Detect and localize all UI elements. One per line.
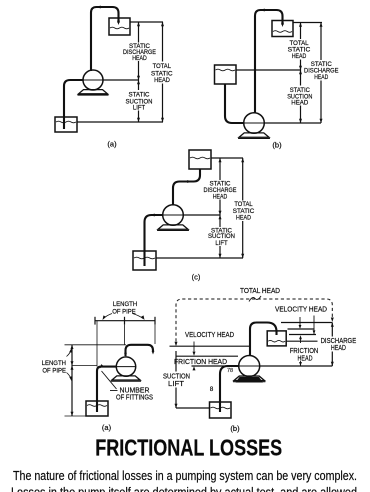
svg-text:LENGTH: LENGTH	[42, 360, 67, 367]
velocity head tick (left)	[193, 342, 196, 356]
caption (a) bottom	[102, 423, 112, 432]
svg-text:FRICTIONAL LOSSES: FRICTIONAL LOSSES	[95, 435, 282, 461]
suction tank (c)	[133, 251, 156, 270]
svg-text:LENGTH: LENGTH	[113, 301, 138, 308]
heading: FRICTIONAL LOSSES	[95, 435, 282, 461]
pump centreline extension (a)	[103, 79, 139, 81]
leader arrows from left label	[67, 348, 73, 382]
discharge pipe (bottom b)	[250, 323, 277, 356]
pump centreline (left segment)	[192, 365, 240, 367]
dimension: total static head (a)	[161, 22, 164, 122]
suction tank (bottom a)	[86, 401, 108, 416]
svg-text:(b): (b)	[230, 424, 240, 433]
extension lines from top dimension	[97, 321, 155, 367]
svg-text:(a): (a)	[102, 423, 112, 432]
energy line at suction (left velocity-head top)	[170, 345, 251, 347]
pump (bottom a)	[111, 357, 141, 381]
body text line 1	[13, 468, 357, 483]
svg-text:OF FITTINGS: OF FITTINGS	[116, 392, 153, 401]
suction pipe (bottom a)	[97, 367, 117, 412]
svg-text:HEAD: HEAD	[314, 74, 328, 81]
svg-text:HEAD: HEAD	[298, 353, 313, 362]
svg-text:(c): (c)	[192, 273, 201, 282]
label: TOTAL STATIC HEAD (c)	[233, 201, 255, 221]
svg-text:78: 78	[227, 368, 233, 374]
svg-text:(a): (a)	[107, 140, 117, 149]
suction tank (a)	[55, 117, 77, 132]
label: STATIC DISCHARGE HEAD (c)	[204, 181, 238, 201]
left reference line (top of vertical pipe run)	[65, 344, 127, 346]
svg-text:HEAD: HEAD	[291, 99, 308, 106]
caption (b) bottom	[230, 424, 240, 433]
caption (a)	[107, 140, 117, 149]
dimension: static discharge head / static suction lift (a)	[137, 22, 140, 122]
pump (c)	[157, 205, 189, 231]
discharge pipe (a)	[91, 6, 120, 72]
reference line: suction water level (c)	[156, 257, 243, 259]
suction tank (b)	[215, 65, 237, 84]
label: TOTAL STATIC HEAD (b)	[288, 40, 311, 60]
top diagram (a): pump with suction lift and elevated discharge tank	[55, 6, 173, 149]
body text line 2	[11, 484, 357, 492]
pump (bottom b)	[233, 356, 265, 383]
suction lift dimension line	[175, 351, 178, 408]
friction head tick (left)	[193, 366, 196, 370]
label: LENGTH OF PIPE (top)	[112, 301, 137, 315]
discharge tank (b)	[272, 21, 293, 37]
label: DISCHARGE HEAD	[321, 336, 357, 352]
label: STATIC SUCTION LIFT (a)	[126, 91, 153, 111]
stray figure mark 8	[210, 386, 214, 393]
svg-text:FRICTION HEAD: FRICTION HEAD	[174, 357, 227, 366]
dashed total-head boundary	[175, 299, 334, 346]
label: TOTAL STATIC HEAD (a)	[151, 63, 173, 84]
svg-text:OF PIPE: OF PIPE	[42, 368, 66, 375]
label: LENGTH OF PIPE (left)	[42, 360, 67, 375]
svg-text:HEAD: HEAD	[331, 343, 346, 352]
svg-text:TOTAL: TOTAL	[153, 63, 172, 70]
svg-text:TOTAL HEAD: TOTAL HEAD	[240, 286, 280, 295]
reference line: suction water level (a)	[77, 121, 163, 123]
discharge water level line (right)	[287, 340, 318, 342]
discharge pipe (c)	[173, 169, 200, 205]
reference line: discharge water level (b)	[293, 22, 322, 24]
discharge tank (a)	[109, 18, 130, 35]
suction pipe (a)	[64, 80, 84, 129]
suction tank (bottom b)	[210, 402, 232, 418]
dimension: static discharge head (b)	[320, 23, 323, 124]
svg-text:VELOCITY HEAD: VELOCITY HEAD	[275, 304, 327, 313]
label: STATIC DISCHARGE HEAD (b)	[304, 61, 339, 81]
discharge head dimension line	[331, 323, 334, 367]
svg-text:VELOCITY HEAD: VELOCITY HEAD	[185, 330, 234, 339]
reference line: discharge water level (c)	[211, 157, 243, 159]
reference line: discharge water level (a)	[130, 21, 163, 23]
top diagram (b): pump with static suction head	[215, 9, 340, 150]
discharge tank (bottom b)	[267, 331, 286, 346]
reference line: suction water level (b)	[236, 69, 301, 71]
caption (c)	[192, 273, 201, 282]
label: FRICTION HEAD (right)	[290, 346, 319, 362]
svg-text:HEAD: HEAD	[236, 214, 251, 221]
bottom reference line (tank bottom)	[65, 415, 87, 417]
svg-text:HEAD: HEAD	[132, 55, 147, 62]
svg-text:LIFT: LIFT	[215, 240, 227, 247]
velocity head lines/ticks (right)	[288, 316, 317, 335]
label: STATIC DISCHARGE HEAD (a)	[123, 43, 157, 62]
leader line: number of fittings	[98, 364, 117, 390]
energy line at discharge (velocity-head top, right)	[281, 322, 332, 324]
label: VELOCITY HEAD (right)	[275, 304, 327, 313]
pump centreline (right segment)	[260, 365, 333, 367]
svg-text:8: 8	[210, 386, 214, 393]
pump (a)	[78, 70, 109, 95]
brace under TOTAL HEAD	[249, 296, 261, 302]
label: TOTAL HEAD	[240, 286, 280, 295]
bottom diagram (b): total head with velocity and friction heads	[163, 286, 356, 433]
label: VELOCITY HEAD (left)	[185, 330, 234, 339]
left pump centreline extension	[72, 365, 97, 367]
dimension: total static head (c)	[241, 158, 244, 258]
label: SUCTION LIFT	[163, 371, 190, 388]
svg-text:Losses in the pump itself are: Losses in the pump itself are determined…	[11, 484, 357, 492]
svg-text:HEAD: HEAD	[154, 77, 170, 84]
svg-text:HEAD: HEAD	[213, 193, 228, 200]
svg-text:OF PIPE: OF PIPE	[112, 308, 136, 315]
hydraulic line (left friction-head top)	[176, 355, 238, 357]
dimension: static discharge head / static suction lift (c)	[219, 158, 222, 258]
friction head ticks (right)	[299, 335, 302, 366]
svg-text:LIFT: LIFT	[168, 379, 185, 388]
svg-text:The nature of frictional losse: The nature of frictional losses in a pum…	[13, 468, 357, 483]
svg-text:LIFT: LIFT	[133, 104, 145, 111]
pump centreline extension (b)	[264, 122, 321, 124]
suction pipe (bottom b)	[220, 366, 239, 412]
pump (b)	[238, 113, 270, 139]
svg-text:HEAD: HEAD	[292, 53, 307, 60]
bottom diagram (a): pipe lengths and fittings	[42, 301, 155, 432]
label: FRICTION HEAD (left)	[174, 357, 227, 366]
discharge tank (c)	[189, 150, 211, 169]
label: STATIC SUCTION HEAD (b)	[287, 87, 312, 107]
discharge pipe with open hook (bottom a)	[124, 345, 154, 357]
discharge pipe (b)	[255, 9, 284, 114]
suction water level line	[176, 407, 210, 409]
label: NUMBER OF FITTINGS	[116, 386, 153, 402]
pump centreline extension (c)	[183, 214, 220, 216]
label: STATIC SUCTION LIFT (c)	[208, 228, 235, 247]
dimension: total static head / static suction head (b)	[299, 23, 302, 124]
middle diagram (c): pump with suction lift, elevated discharge tank	[133, 150, 254, 282]
svg-text:(b): (b)	[272, 141, 282, 150]
stray figure mark 78	[227, 368, 233, 374]
top dimension line: length of pipe	[95, 317, 155, 325]
suction pipe (c)	[145, 214, 164, 267]
svg-text:STATIC: STATIC	[129, 91, 150, 98]
caption (b)	[272, 141, 282, 150]
suction pipe (b)	[225, 84, 244, 123]
leader arrows to top dimension	[101, 314, 146, 321]
left dimension line: length of pipe (vertical)	[71, 345, 74, 416]
